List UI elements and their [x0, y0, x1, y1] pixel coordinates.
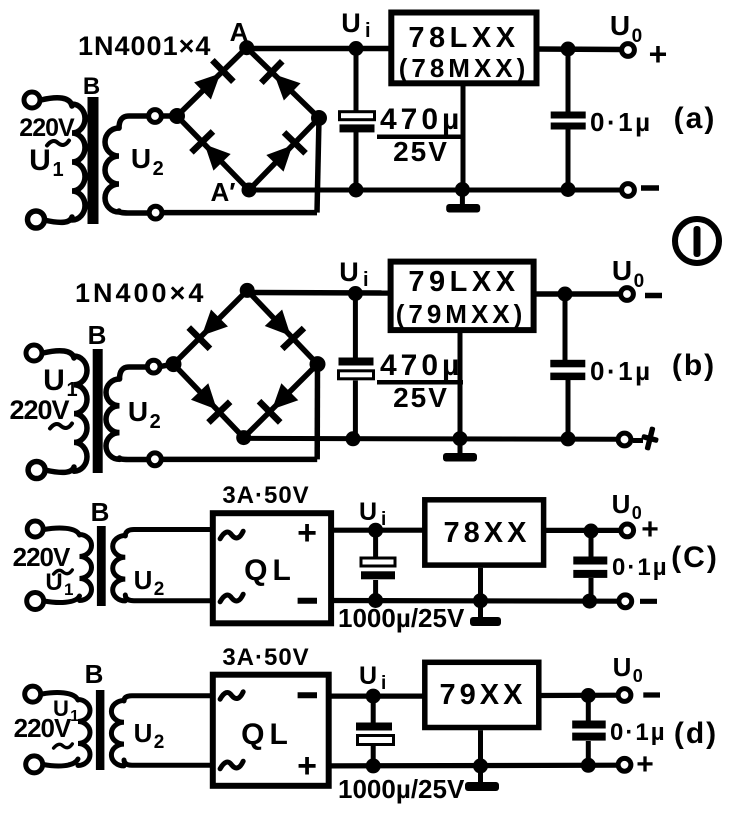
svg-text:B: B [83, 73, 100, 100]
svg-text:(C): (C) [671, 541, 719, 574]
svg-text:U: U [128, 396, 148, 427]
svg-text:U: U [43, 364, 65, 397]
svg-text:79LXX: 79LXX [408, 266, 519, 298]
svg-text:25V: 25V [393, 136, 449, 167]
svg-text:1N400×4: 1N400×4 [75, 278, 206, 308]
svg-text:78XX: 78XX [444, 517, 531, 549]
svg-text:25V: 25V [393, 382, 449, 413]
svg-text:1N4001×4: 1N4001×4 [78, 31, 211, 61]
svg-text:(a): (a) [674, 102, 717, 135]
svg-text:U: U [45, 569, 62, 596]
svg-text:+: + [649, 36, 668, 72]
svg-text:0·1µ: 0·1µ [590, 356, 653, 386]
svg-text:1000µ/25V: 1000µ/25V [338, 774, 465, 804]
svg-text:1: 1 [52, 159, 63, 181]
svg-text:3A·50V: 3A·50V [222, 644, 309, 671]
svg-text:U: U [612, 489, 631, 519]
svg-text:(78MXX): (78MXX) [399, 53, 530, 83]
svg-text:QL: QL [244, 554, 296, 587]
svg-text:+: + [636, 748, 654, 781]
svg-text:B: B [88, 320, 107, 350]
svg-text:(79MXX): (79MXX) [396, 299, 527, 329]
svg-text:QL: QL [241, 718, 293, 751]
svg-text:2: 2 [150, 411, 161, 433]
svg-text:U: U [134, 718, 153, 748]
svg-text:470µ: 470µ [380, 103, 463, 136]
svg-text:(b): (b) [672, 349, 716, 382]
svg-text:220V: 220V [9, 395, 69, 425]
svg-text:U: U [341, 8, 361, 38]
svg-text:79XX: 79XX [440, 679, 527, 711]
svg-text:2: 2 [154, 579, 165, 600]
svg-text:U: U [339, 257, 359, 287]
svg-text:A′: A′ [210, 177, 235, 207]
svg-text:0·1µ: 0·1µ [612, 554, 669, 581]
svg-text:1: 1 [64, 580, 73, 599]
svg-text:U: U [359, 662, 377, 690]
svg-text:0: 0 [634, 271, 645, 292]
svg-text:220V: 220V [14, 713, 72, 743]
svg-text:0·1µ: 0·1µ [590, 107, 653, 137]
svg-text:1: 1 [70, 708, 79, 725]
svg-text:i: i [381, 509, 386, 530]
svg-text:B: B [91, 497, 110, 527]
svg-text:i: i [381, 673, 386, 694]
svg-text:i: i [363, 269, 369, 291]
svg-text:i: i [365, 20, 371, 42]
svg-text:U: U [613, 652, 632, 682]
svg-text:220V: 220V [13, 542, 71, 572]
svg-text:A: A [230, 17, 249, 47]
svg-text:78LXX: 78LXX [408, 22, 519, 54]
svg-text:U: U [29, 144, 51, 177]
svg-text:0: 0 [633, 666, 643, 686]
svg-text:(d): (d) [674, 717, 718, 750]
svg-text:2: 2 [154, 732, 165, 753]
svg-text:0·1µ: 0·1µ [610, 719, 667, 746]
svg-text:U: U [131, 143, 151, 174]
svg-text:2: 2 [153, 158, 164, 180]
svg-text:B: B [85, 659, 104, 689]
svg-text:1000µ/25V: 1000µ/25V [338, 603, 465, 633]
svg-text:220V: 220V [19, 114, 75, 142]
svg-text:+: + [297, 747, 317, 785]
svg-text:470µ: 470µ [380, 349, 463, 382]
svg-text:+: + [641, 513, 659, 546]
svg-text:U: U [359, 498, 377, 526]
svg-text:U: U [610, 10, 630, 41]
svg-text:0: 0 [632, 26, 643, 47]
svg-text:U: U [612, 255, 632, 286]
svg-text:U: U [134, 565, 153, 595]
svg-text:+: + [297, 514, 317, 552]
svg-text:3A·50V: 3A·50V [222, 482, 309, 509]
